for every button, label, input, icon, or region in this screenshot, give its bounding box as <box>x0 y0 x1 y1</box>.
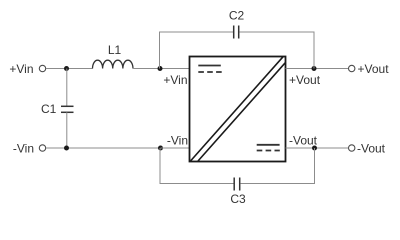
wire node D to converter -Vin pin <box>161 147 190 149</box>
svg-text:L1: L1 <box>108 43 122 57</box>
inductor L1 <box>93 60 133 68</box>
capacitor C2 <box>234 26 239 39</box>
wire converter +Vout pin to node E <box>286 68 315 70</box>
svg-text:C2: C2 <box>229 9 245 23</box>
terminal +Vout <box>349 65 355 71</box>
terminal -Vout <box>349 145 355 151</box>
wire +Vin terminal to node A <box>46 68 92 70</box>
svg-text:C3: C3 <box>230 192 246 206</box>
capacitor C3 <box>234 178 240 191</box>
wire node C to node D <box>67 147 161 149</box>
svg-text:+Vout: +Vout <box>358 62 390 76</box>
svg-text:+Vin: +Vin <box>9 62 33 76</box>
capacitor C1 <box>61 69 74 149</box>
wire node E to +Vout terminal <box>314 68 348 70</box>
wire node B up and right to C2 <box>159 32 233 69</box>
wire C3 right and up to node F <box>240 148 315 184</box>
svg-text:-Vout: -Vout <box>357 142 386 156</box>
converter diagonal line 1 <box>191 57 284 161</box>
svg-text:+Vout: +Vout <box>289 73 321 87</box>
node F junction dot <box>312 146 317 151</box>
wire L1 to node B <box>134 68 161 70</box>
DC symbol input side (solid over dashed) <box>198 66 222 73</box>
wire node D down and right to C3 <box>160 148 234 184</box>
DC symbol output side (solid over dashed) <box>257 145 280 151</box>
wire -Vin terminal to node C <box>46 147 66 149</box>
wire node B to converter +Vin pin <box>160 68 190 70</box>
wire C2 right and down to node E <box>239 32 314 69</box>
wire node F to -Vout terminal <box>315 147 349 149</box>
converter diagonal line 2 <box>198 63 285 161</box>
svg-text:-Vout: -Vout <box>289 134 318 148</box>
wire converter -Vout pin to node F <box>286 147 315 149</box>
svg-text:-Vin: -Vin <box>167 134 188 148</box>
svg-text:+Vin: +Vin <box>163 73 187 87</box>
node E junction dot <box>312 66 317 71</box>
dc-dc converter U1 box <box>190 57 286 162</box>
node A junction dot <box>64 66 69 71</box>
terminal +Vin <box>39 65 45 71</box>
svg-text:-Vin: -Vin <box>13 142 34 156</box>
terminal -Vin <box>39 145 45 151</box>
node D junction dot <box>158 146 163 151</box>
svg-text:C1: C1 <box>41 102 57 116</box>
node C junction dot <box>64 146 69 151</box>
node B junction dot <box>158 66 163 71</box>
